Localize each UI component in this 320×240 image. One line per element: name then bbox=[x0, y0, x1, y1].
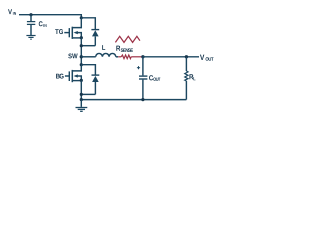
inductor L bbox=[96, 53, 116, 56]
node BG drain tee dot bbox=[80, 63, 83, 66]
wire D2 anode to ground branch bbox=[81, 93, 95, 95]
wire D1 anode to SW branch bbox=[81, 45, 95, 47]
wire node B to VOUT bbox=[143, 56, 199, 58]
node SW dot bbox=[80, 55, 83, 58]
node VOUT label bbox=[200, 55, 214, 61]
wire CIN to ground bbox=[30, 25, 32, 35]
transistor TG label bbox=[55, 29, 63, 34]
wire bottom rail bbox=[81, 99, 186, 101]
transistor TG (top NMOS) bbox=[64, 18, 81, 39]
wire RL top lead bbox=[185, 57, 187, 71]
node junction dot at CIN bbox=[29, 13, 32, 16]
node RL tee dot bbox=[185, 55, 188, 58]
node dot D2 anode junction bbox=[80, 93, 83, 96]
wire RL bottom lead bbox=[185, 81, 187, 100]
capacitor COUT polarity plus bbox=[137, 66, 140, 69]
ground at CIN bbox=[26, 36, 35, 40]
resistor RL label bbox=[189, 74, 195, 80]
wire to ground bbox=[80, 100, 82, 107]
capacitor COUT label bbox=[149, 75, 160, 81]
node dot D1 anode junction bbox=[80, 44, 83, 47]
node TG source dot bbox=[80, 36, 83, 39]
wire node A to diode D1 bbox=[81, 18, 95, 29]
resistor symbol callout (red zigzag above RSENSE) bbox=[115, 36, 139, 42]
wire VIN top rail bbox=[19, 15, 81, 18]
capacitor COUT bbox=[139, 76, 147, 79]
node A dot (VIN rail / TG drain / D1 tee) bbox=[80, 16, 83, 19]
wire COUT top lead bbox=[142, 57, 144, 76]
wire main vertical TG source to BG drain bbox=[80, 38, 82, 65]
resistor RSENSE (red, inline) bbox=[118, 55, 141, 59]
wire BG source to bottom rail bbox=[80, 80, 82, 99]
node BG source dot bbox=[80, 79, 83, 82]
ground (main) bbox=[76, 108, 88, 112]
wire COUT bottom lead bbox=[142, 80, 144, 100]
diode D1 (TG body diode) bbox=[91, 30, 99, 46]
capacitor CIN bbox=[27, 22, 35, 25]
node VIN label bbox=[8, 9, 16, 15]
node SW label bbox=[68, 53, 77, 58]
resistor RSENSE label bbox=[116, 46, 133, 52]
diode D2 (BG body diode) bbox=[92, 75, 100, 94]
node dot bottom rail left bbox=[80, 98, 83, 101]
node dot COUT bottom bbox=[141, 98, 144, 101]
capacitor CIN label bbox=[39, 21, 47, 27]
node B dot (RSENSE / COUT junction) bbox=[141, 55, 144, 58]
wire inductor to RSENSE bbox=[116, 56, 118, 58]
wire SW to inductor bbox=[81, 56, 95, 58]
wire BG drain tee to diode D2 bbox=[81, 65, 95, 75]
resistor RL bbox=[185, 71, 188, 81]
transistor BG label bbox=[56, 74, 64, 79]
inductor L label bbox=[102, 45, 105, 50]
transistor BG (bottom NMOS) bbox=[65, 65, 81, 83]
wire CIN lead bbox=[30, 15, 32, 22]
